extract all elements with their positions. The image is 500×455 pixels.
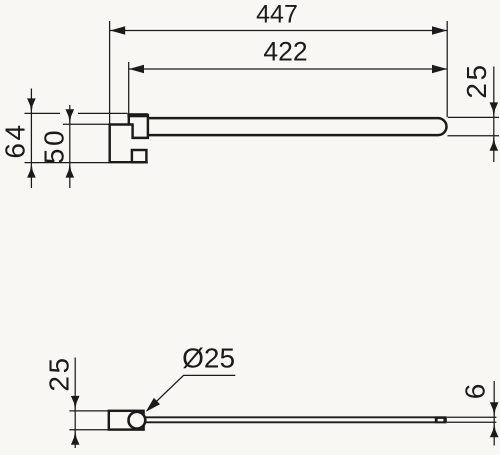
dimension 6 arrow bottom — [490, 422, 499, 437]
svg-text:64: 64 — [0, 122, 30, 158]
bottom view bar end fitting — [438, 419, 444, 421]
pivot circle — [129, 412, 146, 429]
extension line 422 left — [128, 62, 130, 113]
svg-text:447: 447 — [256, 1, 298, 29]
dimension 25 right extension lines — [448, 117, 500, 135]
dimension 25 left arrow bottom — [71, 430, 80, 445]
bottom view bar solid segment — [435, 416, 447, 423]
bracket lower lug square — [132, 150, 147, 162]
dimension 447 arrow right — [432, 26, 447, 34]
svg-text:25: 25 — [461, 62, 492, 98]
dimension 447 arrow left — [110, 26, 125, 34]
dimension 50 line — [69, 105, 71, 188]
dimension 25 left arrow top — [71, 396, 80, 411]
rail tube side view — [148, 118, 447, 135]
dimension 447 line — [110, 30, 447, 32]
bracket hinge neck — [128, 117, 130, 125]
svg-text:50: 50 — [39, 128, 70, 164]
dimension 6 extension lines — [447, 417, 496, 422]
dimension 64 line — [30, 89, 32, 189]
extension line left (wall face) — [109, 21, 111, 124]
dimension 25 right arrow top — [490, 102, 499, 117]
dimension 25 right line — [493, 67, 495, 163]
dimension 50 arrow bottom — [66, 163, 75, 178]
bottom view bar bottom edge — [145, 421, 446, 423]
dimension 50 top extension line — [63, 123, 109, 125]
bracket top flange bar — [127, 113, 148, 117]
bottom view bracket plate — [109, 411, 144, 430]
dimension 64 bottom extension line — [25, 162, 110, 164]
dimension 64 arrow top — [27, 98, 36, 113]
dimension 25 left extension lines — [69, 411, 108, 430]
bracket wall plate body — [110, 125, 148, 163]
dimension 6 line — [493, 381, 495, 446]
dimension 422 arrow left — [129, 65, 144, 73]
svg-text:25: 25 — [44, 355, 75, 391]
dimension 64 arrow bottom — [27, 163, 36, 178]
svg-text:Ø25: Ø25 — [182, 343, 235, 374]
dimension 50 arrow top — [66, 109, 75, 124]
dimension 422 arrow right — [432, 65, 447, 73]
dimension 64 top extension line — [25, 112, 128, 114]
bracket hinge step — [133, 114, 148, 138]
leader arrowhead — [146, 398, 160, 412]
dimension 6 arrow top — [490, 402, 499, 417]
bottom view bar top edge — [145, 416, 446, 418]
svg-text:422: 422 — [263, 37, 307, 67]
extension line right end — [446, 21, 448, 117]
dimension 25 left line — [74, 358, 76, 449]
dimension 422 line — [129, 68, 447, 70]
svg-text:6: 6 — [459, 384, 490, 400]
leader line for diameter 25 — [147, 375, 235, 410]
dimension 25 right arrow bottom — [490, 136, 499, 151]
